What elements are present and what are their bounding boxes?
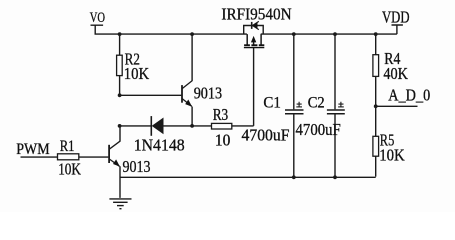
- node junction dot R2 bottom-diode wire: [118, 124, 122, 128]
- svg-text:10: 10: [215, 131, 231, 150]
- wire base of Q1: [120, 94, 182, 96]
- svg-text:VDD: VDD: [382, 8, 410, 27]
- svg-text:4700uF: 4700uF: [242, 125, 290, 144]
- svg-text:VO: VO: [90, 10, 105, 26]
- svg-text:40K: 40K: [383, 64, 408, 83]
- diode D1 1N4148: [151, 116, 163, 136]
- svg-text:PWM: PWM: [16, 141, 49, 158]
- node junction dot rail-C2: [333, 32, 337, 36]
- wire C1 top lead: [293, 35, 295, 110]
- wire top rail left: [95, 33, 247, 35]
- node junction dot base Q1: [118, 93, 122, 97]
- wire C2 top lead: [334, 35, 336, 110]
- svg-text:10K: 10K: [379, 145, 405, 164]
- svg-text:C1: C1: [263, 95, 281, 112]
- node junction dot A_D_0: [374, 104, 378, 108]
- transistor U1 IRFI9540N p-mosfet: [244, 21, 265, 48]
- node junction dot rail-R2: [118, 32, 122, 36]
- node junction dot C2 bottom: [333, 175, 337, 179]
- ground: [109, 199, 131, 209]
- svg-text:R1: R1: [60, 138, 75, 155]
- svg-text:R3: R3: [213, 105, 229, 124]
- node junction dot rail-Q1 collector: [190, 32, 194, 36]
- capacitor C2: [327, 102, 345, 178]
- node junction dot rail-R4: [374, 32, 378, 36]
- resistor R2: [117, 35, 123, 95]
- svg-text:A_D_0: A_D_0: [388, 86, 430, 105]
- wire bottom rail: [120, 176, 376, 178]
- transistor Q2 9013 bottom: [109, 126, 120, 198]
- svg-text:10K: 10K: [124, 64, 149, 83]
- resistor R4: [373, 35, 379, 107]
- resistor R3: [212, 123, 254, 129]
- node junction dot Q1 emitter-diode wire: [190, 124, 194, 128]
- node VO terminal: [91, 25, 104, 34]
- node VDD terminal: [392, 25, 403, 34]
- wire PWM input: [21, 156, 58, 158]
- resistor R5: [373, 106, 379, 176]
- resistor R1: [58, 154, 109, 160]
- svg-text:9013: 9013: [194, 84, 222, 103]
- wire A_D_0 stub: [376, 105, 418, 107]
- transistor Q1 9013 top: [182, 34, 192, 126]
- wire MOSFET gate lead: [253, 48, 255, 126]
- svg-text:IRFI9540N: IRFI9540N: [221, 4, 291, 23]
- wire top rail right: [261, 33, 397, 35]
- svg-text:4700uF: 4700uF: [296, 120, 341, 139]
- node junction dot C1 bottom: [292, 175, 296, 179]
- capacitor C1: [285, 102, 304, 178]
- svg-text:9013: 9013: [123, 157, 151, 176]
- node junction dot rail-C1: [292, 32, 296, 36]
- wire diode row: [120, 125, 212, 127]
- svg-text:10K: 10K: [58, 160, 81, 179]
- svg-text:C2: C2: [308, 95, 325, 112]
- svg-text:1N4148: 1N4148: [134, 135, 185, 154]
